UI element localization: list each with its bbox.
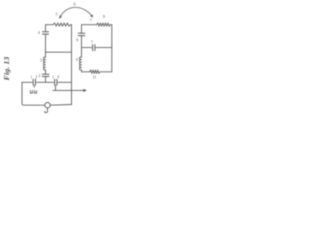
wire bottom rail right part xyxy=(50,104,71,107)
wire outer left vertical (x=22) xyxy=(21,82,23,103)
svg-text:7: 7 xyxy=(90,19,92,23)
wire bottom rail left part xyxy=(22,103,45,105)
wire left edge of right loop lower xyxy=(81,70,83,72)
headphone symbol below C3 xyxy=(30,85,36,93)
resistor R1 (zigzag on right loop bottom) xyxy=(90,70,101,74)
svg-text:4: 4 xyxy=(57,75,59,79)
arrowhead left of arc xyxy=(59,15,62,19)
wire from C4 to right edge xyxy=(58,81,72,83)
wire left edge of right loop upper xyxy=(81,25,83,33)
capacitor C6 (on right loop rung) xyxy=(93,45,95,51)
wire left edge upper segment of left loop xyxy=(45,25,47,32)
wire left edge bottom stub to bottom line xyxy=(45,77,47,83)
inductor L3 (vertical coil on left edge) xyxy=(43,57,45,70)
wire left edge below coil xyxy=(45,70,47,74)
capacitor C3 (on bottom line, left) xyxy=(33,79,35,85)
svg-text:7: 7 xyxy=(91,41,93,45)
svg-text:3: 3 xyxy=(40,59,42,63)
wire right edge of right loop xyxy=(111,25,113,72)
inductor L1 (top coil of left loop) xyxy=(53,23,71,26)
wire top-right corner of right loop xyxy=(111,24,112,26)
wire middle rung of right loop left part xyxy=(82,47,92,49)
wire bottom of right loop left part xyxy=(82,71,90,73)
mutual inductance arrow M (arc) xyxy=(60,7,92,17)
wire left edge of right loop middle xyxy=(81,36,83,57)
wire top-right corner of left loop xyxy=(71,24,72,26)
svg-text:9: 9 xyxy=(76,58,78,62)
wire between C3 and junction xyxy=(37,81,54,83)
svg-text:1: 1 xyxy=(52,75,54,79)
wire middle rung of right loop right part xyxy=(96,47,112,49)
svg-text:8: 8 xyxy=(103,15,105,19)
capacitor C2 (on left edge, lower) xyxy=(42,74,49,76)
wire stub below C4 xyxy=(55,85,57,90)
svg-text:9: 9 xyxy=(76,39,78,43)
ground hook below source xyxy=(45,108,48,113)
arrowhead right of arc xyxy=(90,15,93,18)
inductor L4 (vertical coil on right loop left edge) xyxy=(79,57,81,70)
svg-text:2: 2 xyxy=(38,74,40,78)
svg-text:1: 1 xyxy=(31,75,33,79)
svg-text:Fig. 13: Fig. 13 xyxy=(2,57,11,81)
arrowhead of output arrow xyxy=(83,89,87,92)
capacitor C4 (on bottom line, right) xyxy=(55,79,57,85)
svg-text:2: 2 xyxy=(35,75,37,79)
capacitor C5 (on right loop left edge) xyxy=(78,33,85,35)
wire top of right loop left part xyxy=(82,24,97,26)
wire output arrow line xyxy=(53,89,84,91)
svg-text:5: 5 xyxy=(56,13,58,17)
wire top-left horizontal of left loop xyxy=(46,24,54,26)
wire middle rung of left loop xyxy=(46,51,72,53)
wire bottom line of left loop (y=82.3) xyxy=(22,81,32,83)
svg-text:11: 11 xyxy=(93,76,97,80)
capacitor C1 (on left edge, upper) xyxy=(43,32,49,34)
AC source G1 (circle) xyxy=(45,103,50,108)
wire bottom of right loop right part xyxy=(100,71,112,73)
svg-text:4: 4 xyxy=(38,31,40,35)
svg-text:6: 6 xyxy=(74,3,76,7)
inductor L2 (top coil of right loop) xyxy=(97,23,111,26)
wire right edge of left loop (x=71.5, down to bottom rail) xyxy=(71,25,73,105)
wire left edge middle segment xyxy=(45,34,47,57)
